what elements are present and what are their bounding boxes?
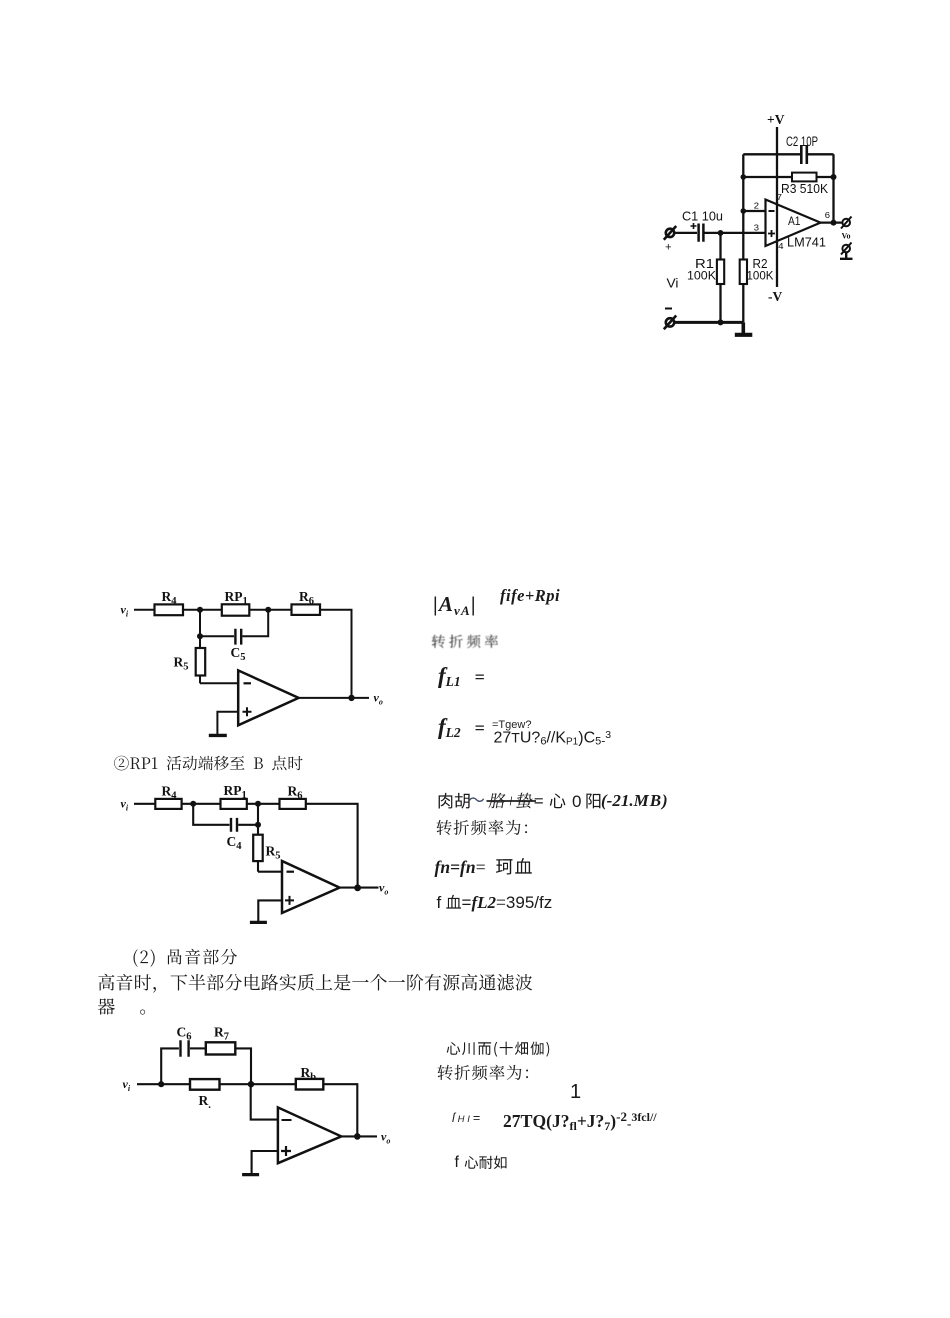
ground <box>250 921 267 924</box>
wire feedback top (C2 branch) <box>743 153 833 155</box>
node junction bottom R1 <box>718 319 724 325</box>
wire left vertical (inverting branch) <box>742 154 744 211</box>
svg-text:C5: C5 <box>231 645 246 663</box>
wire R8 to node 2 <box>220 1083 296 1085</box>
wire R5 to inverting input <box>200 682 238 684</box>
resistor R5 <box>196 636 206 683</box>
formula fHI= <box>452 1111 483 1125</box>
wire node A down <box>199 610 201 637</box>
svg-text:-V: -V <box>768 289 782 304</box>
wire node1 up to C6 <box>161 1048 179 1084</box>
node A junction <box>190 801 196 807</box>
text 肉胡 <box>431 791 477 811</box>
text 转折频率 <box>426 633 507 650</box>
resistor R2 <box>740 211 747 322</box>
node junction C4-R5 <box>255 822 261 828</box>
wire non-inverting input <box>217 712 238 734</box>
minus sign <box>287 871 295 873</box>
node A junction <box>197 607 203 613</box>
svg-text:vi: vi <box>121 797 129 813</box>
ground <box>209 734 227 737</box>
formula =fL2=395/fz <box>462 893 553 913</box>
text = <box>528 791 549 811</box>
wire RP1 to node B <box>247 803 280 805</box>
wire R5 to inverting input <box>258 871 282 873</box>
node junction output <box>831 220 837 226</box>
svg-text:R5: R5 <box>174 655 189 673</box>
formula fife+Rpi <box>500 586 560 606</box>
wire output <box>341 1135 377 1137</box>
resistor R1 <box>717 233 724 322</box>
formula 27TU?6//KP1)C5-3 <box>494 729 612 748</box>
wire output <box>299 697 369 699</box>
wire output <box>340 887 379 889</box>
resistor R6 <box>280 799 306 809</box>
wire node B down <box>257 804 259 835</box>
formula fL1= <box>438 663 485 690</box>
wire R4 to node A <box>183 609 222 611</box>
svg-text:4: 4 <box>778 241 784 252</box>
svg-text:vi: vi <box>121 603 129 619</box>
svg-text:LM741: LM741 <box>787 236 826 250</box>
text ②RP1 活动端移至 B 点时 <box>108 754 309 773</box>
formula numerator 1 <box>570 1081 581 1104</box>
node junction output <box>354 1133 361 1140</box>
wire C6 to R7 <box>190 1047 206 1049</box>
wire R6 to output corner <box>320 610 352 698</box>
node junction feedback-right <box>831 174 837 180</box>
plus sign op-amp <box>768 230 775 237</box>
potentiometer RP1 <box>221 799 247 809</box>
wire input <box>134 803 155 805</box>
wire +V rail vertical through op-amp to -V <box>776 127 778 287</box>
formula 27TQ(J?fl+J?7)-2-3fcl// <box>503 1109 657 1134</box>
svg-text:vo: vo <box>379 881 388 897</box>
ground <box>242 1173 259 1176</box>
capacitor C6 plates <box>181 1040 189 1057</box>
terminal input-low circle <box>664 316 676 330</box>
svg-text:2: 2 <box>754 201 760 212</box>
text (2) 咼音部分 <box>126 947 245 967</box>
svg-text:Rb: Rb <box>301 1065 317 1083</box>
minus sign <box>244 682 252 684</box>
node 2 junction <box>248 1081 254 1087</box>
resistor R6 <box>292 604 321 615</box>
node junction pin2 <box>741 208 747 214</box>
wire non-inverting input <box>252 1151 278 1174</box>
svg-text:6: 6 <box>825 210 831 221</box>
resistor R4 <box>155 604 184 615</box>
svg-text:R7: R7 <box>214 1025 229 1043</box>
text 珂血 <box>489 856 540 878</box>
text 高音时 line1 <box>91 972 539 994</box>
svg-text:vo: vo <box>374 691 383 707</box>
resistor R4 <box>155 799 181 809</box>
node B junction <box>265 607 271 613</box>
minus sign <box>282 1119 292 1121</box>
formula =Tgew? <box>492 719 531 731</box>
resistor R7 <box>206 1042 236 1054</box>
wire bottom common <box>675 321 744 324</box>
formula |AvA| <box>433 592 477 619</box>
svg-text:vi: vi <box>123 1077 131 1093</box>
svg-text:100K: 100K <box>747 269 774 283</box>
wire input <box>134 609 155 611</box>
svg-text:A1: A1 <box>788 214 801 228</box>
formula fL2= <box>438 714 485 741</box>
node junction output <box>348 695 354 701</box>
ground main <box>741 322 745 333</box>
capacitor C4 plates <box>231 818 237 832</box>
node B junction <box>255 801 261 807</box>
svg-text:3: 3 <box>754 223 760 234</box>
potentiometer RP1 <box>222 604 250 615</box>
capacitor C1 plates <box>699 224 704 242</box>
op-amp U3 triangle <box>282 861 340 913</box>
wire right vertical (feedback to output) <box>832 154 834 222</box>
node 1 junction <box>158 1081 164 1087</box>
text 0 <box>572 792 581 812</box>
wire R4 to node A <box>182 803 221 805</box>
svg-text:R3 510K: R3 510K <box>781 181 828 196</box>
resistor R9 (Rb) <box>296 1079 324 1090</box>
minus sign op-amp <box>769 210 775 212</box>
formula f <box>437 893 442 913</box>
text 血 <box>440 893 467 912</box>
text 心耐如 <box>459 1154 513 1171</box>
text 转折频率为 2 <box>431 1063 546 1083</box>
formula f2 <box>455 1154 459 1172</box>
capacitor C2 plates <box>801 145 807 164</box>
svg-text:Vi: Vi <box>667 276 679 291</box>
label - input polarity <box>665 308 672 310</box>
label C1 polarity + <box>691 223 697 229</box>
text 转折频率为 1 <box>430 818 545 838</box>
svg-text:+V: +V <box>767 112 785 127</box>
wire node A down to C4 <box>193 804 229 825</box>
wire R7 down to node 2 <box>235 1048 251 1084</box>
formula fn=fn= <box>435 857 486 878</box>
node junction output <box>354 884 361 891</box>
text 阳 <box>579 791 608 811</box>
terminal Vo circle <box>841 217 852 229</box>
svg-text:C1 10u: C1 10u <box>682 210 723 224</box>
wire R3 feedback line <box>743 176 833 178</box>
wire input <box>137 1083 190 1085</box>
resistor R3 <box>792 173 817 182</box>
svg-text:R5: R5 <box>266 844 281 862</box>
wire R6 to output corner <box>306 804 358 888</box>
text 心川而(十畑伽) <box>441 1040 557 1057</box>
plus sign <box>281 1146 291 1156</box>
svg-text:Vo: Vo <box>842 232 851 241</box>
text 心 <box>543 791 572 811</box>
wire RP1 to node B <box>249 609 291 611</box>
terminal input circle <box>664 226 676 240</box>
terminal output-ground circle <box>841 243 852 255</box>
pin 2 wire (inverting input) <box>743 210 765 212</box>
op-amp U2 triangle <box>238 670 298 725</box>
svg-text:+: + <box>665 243 672 255</box>
wire C4 to junction <box>238 824 258 826</box>
plus sign <box>243 707 252 716</box>
op-amp A1 triangle <box>766 200 821 247</box>
text tilde <box>462 790 491 810</box>
svg-text:7: 7 <box>777 192 783 203</box>
text 器 line2 <box>91 996 188 1018</box>
node junction C5 branch <box>197 633 203 639</box>
svg-text:vo: vo <box>381 1130 390 1146</box>
ground at output terminal <box>840 252 853 258</box>
svg-text:C4: C4 <box>227 834 243 852</box>
wire C5 to node B <box>242 610 268 637</box>
capacitor C5 plates <box>235 629 241 645</box>
svg-text:100K: 100K <box>687 269 716 283</box>
node junction feedback-left <box>741 174 747 180</box>
svg-text:R.: R. <box>199 1093 212 1111</box>
wire Rb to output corner <box>323 1084 357 1136</box>
resistor R5 <box>253 835 263 872</box>
pin 6 output wire <box>821 221 843 223</box>
wire input to C1 <box>675 232 697 234</box>
pin 3 wire (non-inverting input) <box>705 232 766 234</box>
resistor R8 <box>190 1079 220 1090</box>
wire node 2 down to inverting input <box>251 1084 278 1119</box>
node junction input <box>718 230 724 236</box>
text struck 胳+蛰 <box>482 791 540 813</box>
op-amp U4 triangle <box>278 1107 341 1163</box>
wire to C5 <box>200 635 234 637</box>
svg-text:C2 10P: C2 10P <box>786 134 818 149</box>
svg-text:C6: C6 <box>177 1025 192 1043</box>
text (-21.MB) <box>601 791 668 811</box>
plus sign <box>285 896 294 905</box>
wire non-inverting input <box>258 900 282 921</box>
